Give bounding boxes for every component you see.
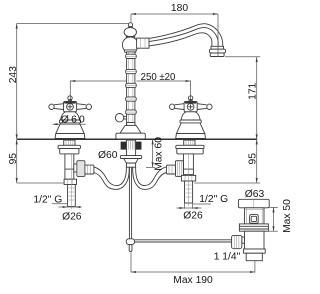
right valve hose fitting [166,165,175,174]
right handle [169,95,212,139]
spout hub collar [126,37,135,39]
right valve tailpiece [185,181,193,203]
svg-text:180: 180 [171,3,188,14]
svg-text:171: 171 [247,82,258,99]
finial neck [129,27,133,28]
pop-up knob [123,115,127,117]
column cone [124,159,139,164]
svg-text:Ø26: Ø26 [62,212,82,223]
svg-text:Max 190: Max 190 [173,275,213,286]
svg-text:243: 243 [8,66,19,83]
right valve knurl nut [175,161,183,177]
spout hub [122,37,138,53]
pop-up waste flange [238,199,269,208]
spout nut [137,38,149,48]
left valve bottom hex [64,179,76,184]
column rings [126,54,137,114]
label diameter 60 handle [53,123,86,125]
finial small ball [128,23,132,27]
svg-text:Ø63: Ø63 [245,189,265,200]
svg-text:Ø26: Ø26 [183,211,203,222]
column collar [127,123,135,126]
waste overflow slot [250,215,259,224]
column washer [120,156,141,159]
rod pin [129,244,132,251]
label diameter 26 right [184,203,186,209]
left valve washer [58,145,80,148]
column right nut [136,142,142,150]
dimension 95 right [256,139,258,183]
svg-text:Ø60: Ø60 [61,115,87,126]
left valve locknut [60,149,79,154]
left valve tailpiece [68,185,76,207]
waste coupling [243,249,265,253]
column left nut [121,142,127,150]
svg-text:95: 95 [247,153,258,165]
spout tube [149,24,223,47]
svg-text:1/2" G: 1/2" G [199,194,228,205]
waste rod connector [242,237,245,243]
right valve body [184,154,194,175]
right valve washer [176,145,204,148]
horizontal rod [135,239,232,241]
right valve locknut [177,149,203,154]
svg-text:95: 95 [8,153,19,165]
waste lower pipe [246,253,262,261]
dimension 180 [131,13,218,15]
spout aerator [211,46,224,49]
left handle [49,95,92,139]
dimension 171 [256,57,258,139]
finial ball [124,27,136,36]
pop-up rod [128,167,130,239]
right hose [136,167,167,186]
column tee [126,163,135,167]
dimension 250 +-20 [70,81,126,99]
left valve hose fitting [85,165,94,174]
column tube [127,52,135,125]
rod clevis [126,239,134,245]
right valve bottom hex [181,175,195,181]
label diameter 26 left [59,206,82,208]
waste knurl nut [232,235,242,248]
column shank below deck [126,140,135,156]
dimension Max 50 [273,207,275,231]
left hose [94,167,127,186]
svg-text:250 ±20: 250 ±20 [141,72,176,83]
dimension Max 60 [152,139,154,167]
svg-text:1 1/4": 1 1/4" [214,252,241,263]
dimension Max 190 [131,271,255,273]
right valve shank [184,140,195,145]
left valve shank [64,140,75,145]
left valve outlet [74,164,77,172]
waste body [245,208,265,224]
dimension 243 [16,24,18,140]
dimension 95 left [16,139,18,183]
column escutcheon [120,125,141,133]
waste rings [239,224,268,231]
waste tailpipe [245,231,265,249]
svg-text:Max 50: Max 50 [282,199,293,233]
svg-text:Max 60: Max 60 [154,137,165,171]
left valve body [65,154,74,179]
deck line [17,138,258,140]
svg-text:Ø60: Ø60 [98,150,118,161]
left valve knurl nut [77,161,85,177]
right valve outlet [181,164,184,172]
